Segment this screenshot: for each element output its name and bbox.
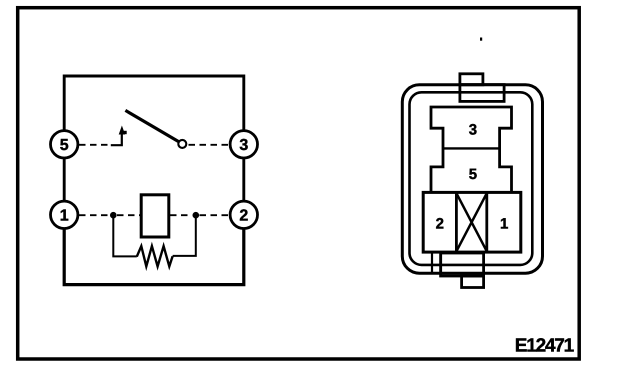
wire dashed link terminal 5 to switch contact (79, 144, 111, 146)
connector housing inner shell (410, 92, 533, 265)
svg-text:E12471: E12471 (515, 335, 575, 356)
switch moving contact (178, 140, 186, 148)
pin cavity block outline for pins 3 and 5 (431, 107, 512, 192)
divider right of keyway cell (485, 192, 488, 252)
terminal 2 (230, 201, 257, 228)
connector housing outer shell (402, 85, 542, 273)
svg-text:1: 1 (500, 216, 508, 233)
wire dashed link terminal 1 to node A (79, 214, 111, 216)
wire dashed link node B to terminal 2 (200, 214, 231, 216)
svg-text:2: 2 (239, 208, 248, 225)
keyway cross X (456, 193, 486, 251)
wire dashed link switch contact to terminal 3 (189, 144, 231, 146)
terminal 1 (50, 201, 77, 228)
node A junction dot (110, 212, 117, 219)
svg-text:3: 3 (469, 122, 477, 139)
terminal 5 (50, 131, 77, 158)
svg-text:5: 5 (60, 137, 69, 154)
wire dashed link coil to node B (170, 214, 192, 216)
svg-text:1: 1 (60, 208, 69, 225)
connector bottom mounting tab base (441, 253, 484, 276)
wire right segment terminal 3 to terminal 2 (242, 159, 245, 201)
wire left leg node A to resistor (113, 215, 137, 256)
wire left segment terminal 5 to terminal 1 (63, 159, 66, 201)
divider between cavity 3 and cavity 5 (443, 147, 500, 149)
wire top bus between terminals 5 and 3 (64, 76, 244, 130)
switch blade (125, 110, 178, 141)
switch fixed contact with arrow (111, 126, 127, 146)
svg-text:2: 2 (436, 216, 444, 233)
svg-text:3: 3 (239, 137, 248, 154)
terminal 3 (230, 131, 257, 158)
pin cavity row for pins 2 and 1 (423, 192, 521, 252)
connector top mounting tab base (460, 85, 504, 102)
connector top mounting tab (460, 74, 483, 85)
wire right leg node B to resistor (173, 215, 196, 256)
wire dashed link node A to coil (117, 214, 140, 216)
connector keyway channel (432, 252, 441, 275)
resistor R1 (137, 246, 173, 266)
node B junction dot (193, 212, 200, 219)
relay coil L1 (141, 195, 169, 237)
svg-text:5: 5 (469, 166, 477, 183)
connector bottom mounting tab (462, 276, 484, 288)
wire bottom bus between terminals 1 and 2 (64, 229, 244, 284)
divider left of keyway cell (455, 192, 458, 252)
